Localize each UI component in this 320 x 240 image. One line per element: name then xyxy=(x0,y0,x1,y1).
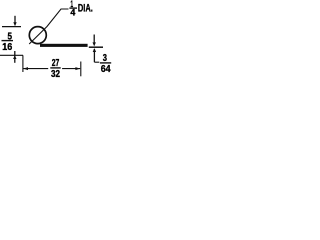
3/64 lower arrow (points up) with stem xyxy=(93,48,96,52)
svg-text:DIA.: DIA. xyxy=(78,3,93,15)
leader line to 1/4 DIA. xyxy=(29,9,68,44)
5/16 top extension line xyxy=(2,26,21,28)
svg-text:32: 32 xyxy=(51,69,60,80)
27/32 left extension line xyxy=(22,55,24,72)
bar-end thickness extension line xyxy=(89,46,103,48)
svg-text:4: 4 xyxy=(70,8,75,18)
3/64 upper arrow (points down) xyxy=(93,35,95,44)
5/16 bottom extension line xyxy=(0,54,23,56)
5/16 bottom arrow (points up at line) xyxy=(14,51,16,63)
27/32 right extension line xyxy=(80,62,82,77)
27/32 dimension line left segment with left arrowhead xyxy=(23,68,48,70)
5/16 top arrow (points down) xyxy=(14,16,16,24)
part eye (circle loop) xyxy=(29,27,46,44)
3/64 leader tick xyxy=(94,61,99,63)
part flat leg (thick bar) xyxy=(40,44,88,47)
27/32 dimension line right segment with right arrowhead xyxy=(62,68,80,70)
svg-text:16: 16 xyxy=(2,42,12,53)
svg-text:64: 64 xyxy=(101,64,111,75)
